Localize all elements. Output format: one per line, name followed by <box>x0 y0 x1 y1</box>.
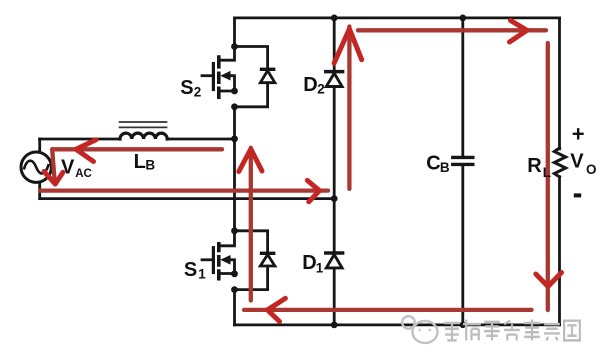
svg-text:L: L <box>543 165 551 180</box>
svg-text:L: L <box>134 151 146 173</box>
diode (body) of S2 <box>260 69 276 82</box>
svg-text:D: D <box>302 252 316 274</box>
wire red: lower horizontal to D column <box>40 188 328 192</box>
wire top rail <box>235 16 560 19</box>
svg-text:B: B <box>440 160 450 175</box>
wire red: top horizontal to right <box>358 28 546 32</box>
svg-text:1: 1 <box>198 266 206 281</box>
wire D column bottom (D1 to bottom rail) <box>333 268 336 325</box>
inductor LB humps <box>120 133 167 139</box>
transistor S1 (MOSFET) <box>202 231 268 290</box>
node: CB bottom rail dot <box>460 322 466 328</box>
svg-text:C: C <box>426 153 440 175</box>
node: S2 source dot <box>231 88 238 95</box>
node: D2 top rail dot <box>331 15 338 22</box>
node: S1 drain dot <box>231 227 238 234</box>
svg-text:+: + <box>572 122 585 147</box>
svg-text:B: B <box>145 157 155 172</box>
svg-text:2: 2 <box>317 81 325 96</box>
wire red: vertical up beside D2 <box>347 27 351 189</box>
wire right column (output branch) <box>558 18 561 149</box>
node: D1 bottom rail dot <box>331 322 338 329</box>
diode (body) of S1 <box>260 253 276 266</box>
watermark text (pseudo CJK glyphs) <box>444 320 580 341</box>
arrowhead down (at source) <box>44 172 63 185</box>
svg-text:S: S <box>184 259 197 281</box>
wire CB column upper <box>461 18 464 157</box>
diode D2 <box>326 70 343 74</box>
arrowhead up (beside D2) <box>334 29 362 63</box>
svg-text:R: R <box>527 155 542 177</box>
AC source sine wave <box>24 161 49 174</box>
label minus <box>574 193 581 197</box>
arrowhead right (top rail) <box>510 21 528 43</box>
AC source VAC circle <box>21 152 51 182</box>
wire CB column lower <box>461 164 464 325</box>
svg-text:2: 2 <box>194 85 202 100</box>
node: S1 source dot <box>231 270 238 277</box>
wire red: down through source <box>52 149 54 179</box>
node: AC return / D column dot <box>331 195 338 202</box>
inductor LB core lines <box>120 122 167 127</box>
svg-text:AC: AC <box>75 168 92 180</box>
wire red: right vertical down <box>546 43 550 310</box>
wire S column bottom (S1 source to bottom rail) <box>233 290 236 325</box>
wire AC loop bottom (source to D column) <box>40 197 335 200</box>
wire red: bottom horizontal leftwards <box>244 308 532 312</box>
wire AC loop top (source to L_B) <box>40 138 121 141</box>
svg-text:V: V <box>61 157 75 179</box>
transistor S2 body arrow <box>220 71 230 81</box>
svg-text:S: S <box>180 77 193 99</box>
wire red: top-left horizontal under L_B <box>52 147 222 151</box>
wire D column middle (D2 to node, node to D1) <box>333 87 336 254</box>
node: S2 drain dot <box>231 43 238 50</box>
node: S2 lower junction dot <box>231 103 238 110</box>
wire D column top (rail to D2) <box>333 18 336 72</box>
diode D1 <box>326 251 343 255</box>
watermark icon <box>402 316 437 343</box>
arrowhead left (under L_B) <box>76 140 96 162</box>
node: L_B junction dot <box>231 135 238 142</box>
wire red: vertical up through S column area <box>249 148 253 301</box>
arrowhead left (bottom rail) <box>268 298 286 321</box>
arrowhead down (right side) <box>536 273 562 287</box>
wire AC loop left edge <box>38 139 41 199</box>
svg-text:1: 1 <box>316 261 324 276</box>
svg-text:O: O <box>586 162 597 177</box>
resistor RL zigzag <box>554 148 565 177</box>
transistor S2 (MOSFET) <box>202 47 268 107</box>
wire right column lower <box>558 177 561 325</box>
arrowhead right (lower horizontal) <box>307 180 319 201</box>
red current path <box>40 27 548 311</box>
svg-text:V: V <box>570 150 584 172</box>
wire S column top (rail down to S2 drain) <box>233 18 236 47</box>
wire S column middle (S2 source to S1 drain) <box>233 107 236 230</box>
capacitor CB plates <box>453 157 473 164</box>
wire AC loop top (L_B to S column) <box>167 138 234 141</box>
node: S1 lower junction dot <box>231 286 238 293</box>
arrowhead up (S column) <box>239 149 262 172</box>
svg-text:D: D <box>303 74 317 96</box>
transistor S1 body arrow <box>220 255 230 265</box>
node: CB top rail dot <box>459 15 466 22</box>
wire bottom rail <box>235 323 560 326</box>
